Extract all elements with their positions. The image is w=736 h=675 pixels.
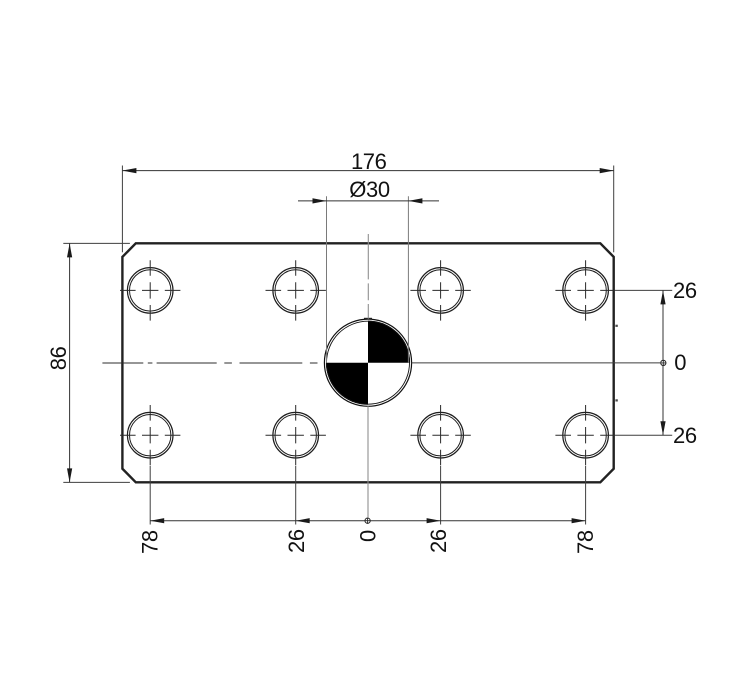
right ordinate: extension line y=435.2: [616, 434, 672, 436]
svg-text:26: 26: [284, 529, 309, 553]
hole H7 (bottom row, x=440.6): [418, 412, 464, 458]
svg-text:0: 0: [674, 350, 686, 375]
dimension 86: arrow top: [67, 243, 72, 257]
svg-text:26: 26: [673, 423, 697, 448]
bottom ordinate: extension line x=368 (zero line): [367, 406, 369, 517]
svg-text:86: 86: [46, 346, 71, 370]
bottom ordinate: arrow at 295 (points left): [296, 518, 310, 523]
right ordinate: arrow down: [660, 421, 665, 435]
svg-text:176: 176: [351, 149, 387, 174]
bottom ordinate: origin marker: [365, 518, 371, 524]
dimension Ø30: extension line left: [326, 196, 328, 363]
svg-text:78: 78: [137, 530, 162, 554]
bottom ordinate: extension line x=440.6: [440, 466, 442, 525]
hole H6 (bottom row, x=295.7): [273, 412, 319, 458]
dimension 176: arrow right: [600, 168, 614, 173]
svg-text:26: 26: [426, 529, 451, 553]
hole H2 (top row, x=295.7): [273, 268, 319, 314]
dimension 86: dimension line: [69, 243, 71, 482]
svg-text:26: 26: [673, 278, 697, 303]
vertical centerline above center hole: [367, 234, 369, 319]
stray dot lower: [615, 399, 617, 401]
dimension Ø30: arrow left (points right): [313, 198, 327, 203]
horizontal centerline (dash-dot, left of center hole): [102, 362, 317, 364]
right ordinate: arrow up: [660, 290, 665, 304]
bottom ordinate: extension line x=295.7: [295, 466, 297, 525]
centermark H4: [555, 260, 615, 320]
dimension 176: extension line left: [121, 166, 123, 253]
centermark H5: [120, 405, 180, 465]
hole H5 (bottom-left): [127, 412, 173, 458]
right ordinate: extension line y=290: [616, 289, 672, 291]
centermark H8: [555, 405, 615, 465]
dimension 176: arrow left: [122, 168, 136, 173]
dimension Ø30: dimension line: [298, 200, 439, 202]
bottom ordinate: extension line x=585.6: [585, 466, 587, 525]
svg-text:0: 0: [356, 530, 381, 542]
center hole top tick: [364, 318, 372, 320]
dimension Ø30: extension line right: [407, 196, 409, 363]
centermark H6: [266, 405, 326, 465]
dimension Ø30: arrow right (points left): [408, 198, 422, 203]
centermark H1: [120, 260, 180, 320]
right ordinate: vertical dimension line: [662, 290, 664, 435]
hole H8 (bottom-right): [563, 412, 609, 458]
bottom ordinate: arrow at 585 (points right): [572, 518, 586, 523]
bottom ordinate: horizontal dimension line: [150, 520, 585, 522]
bottom ordinate: extension line x=150.2: [149, 466, 151, 525]
bottom ordinate: arrow at 440 (points right): [427, 518, 441, 523]
centermark H3: [410, 260, 470, 320]
dimension 176: extension line right: [613, 166, 615, 253]
right ordinate: origin marker: [660, 360, 666, 366]
stray dot upper: [615, 325, 617, 327]
centermark H2: [266, 260, 326, 320]
hole H3 (top row, x=440.6): [418, 268, 464, 314]
hole H4 (top-right): [563, 268, 609, 314]
center hole C1 quadrant symbol: [324, 319, 411, 406]
svg-text:78: 78: [573, 530, 598, 554]
hole H1 (top-left): [127, 268, 173, 314]
plate outline: [122, 243, 613, 482]
dimension 86: extension line bottom: [63, 481, 130, 483]
bottom ordinate: arrow at 150 (points left): [150, 518, 164, 523]
dimension 86: extension line top: [63, 242, 130, 244]
dimension 176: dimension line: [122, 170, 613, 172]
dimension 86: arrow bottom: [67, 468, 72, 482]
svg-text:Ø30: Ø30: [349, 177, 390, 202]
centermark H7: [410, 405, 470, 465]
right ordinate: extension line y=362.9 (zero line): [412, 362, 661, 364]
